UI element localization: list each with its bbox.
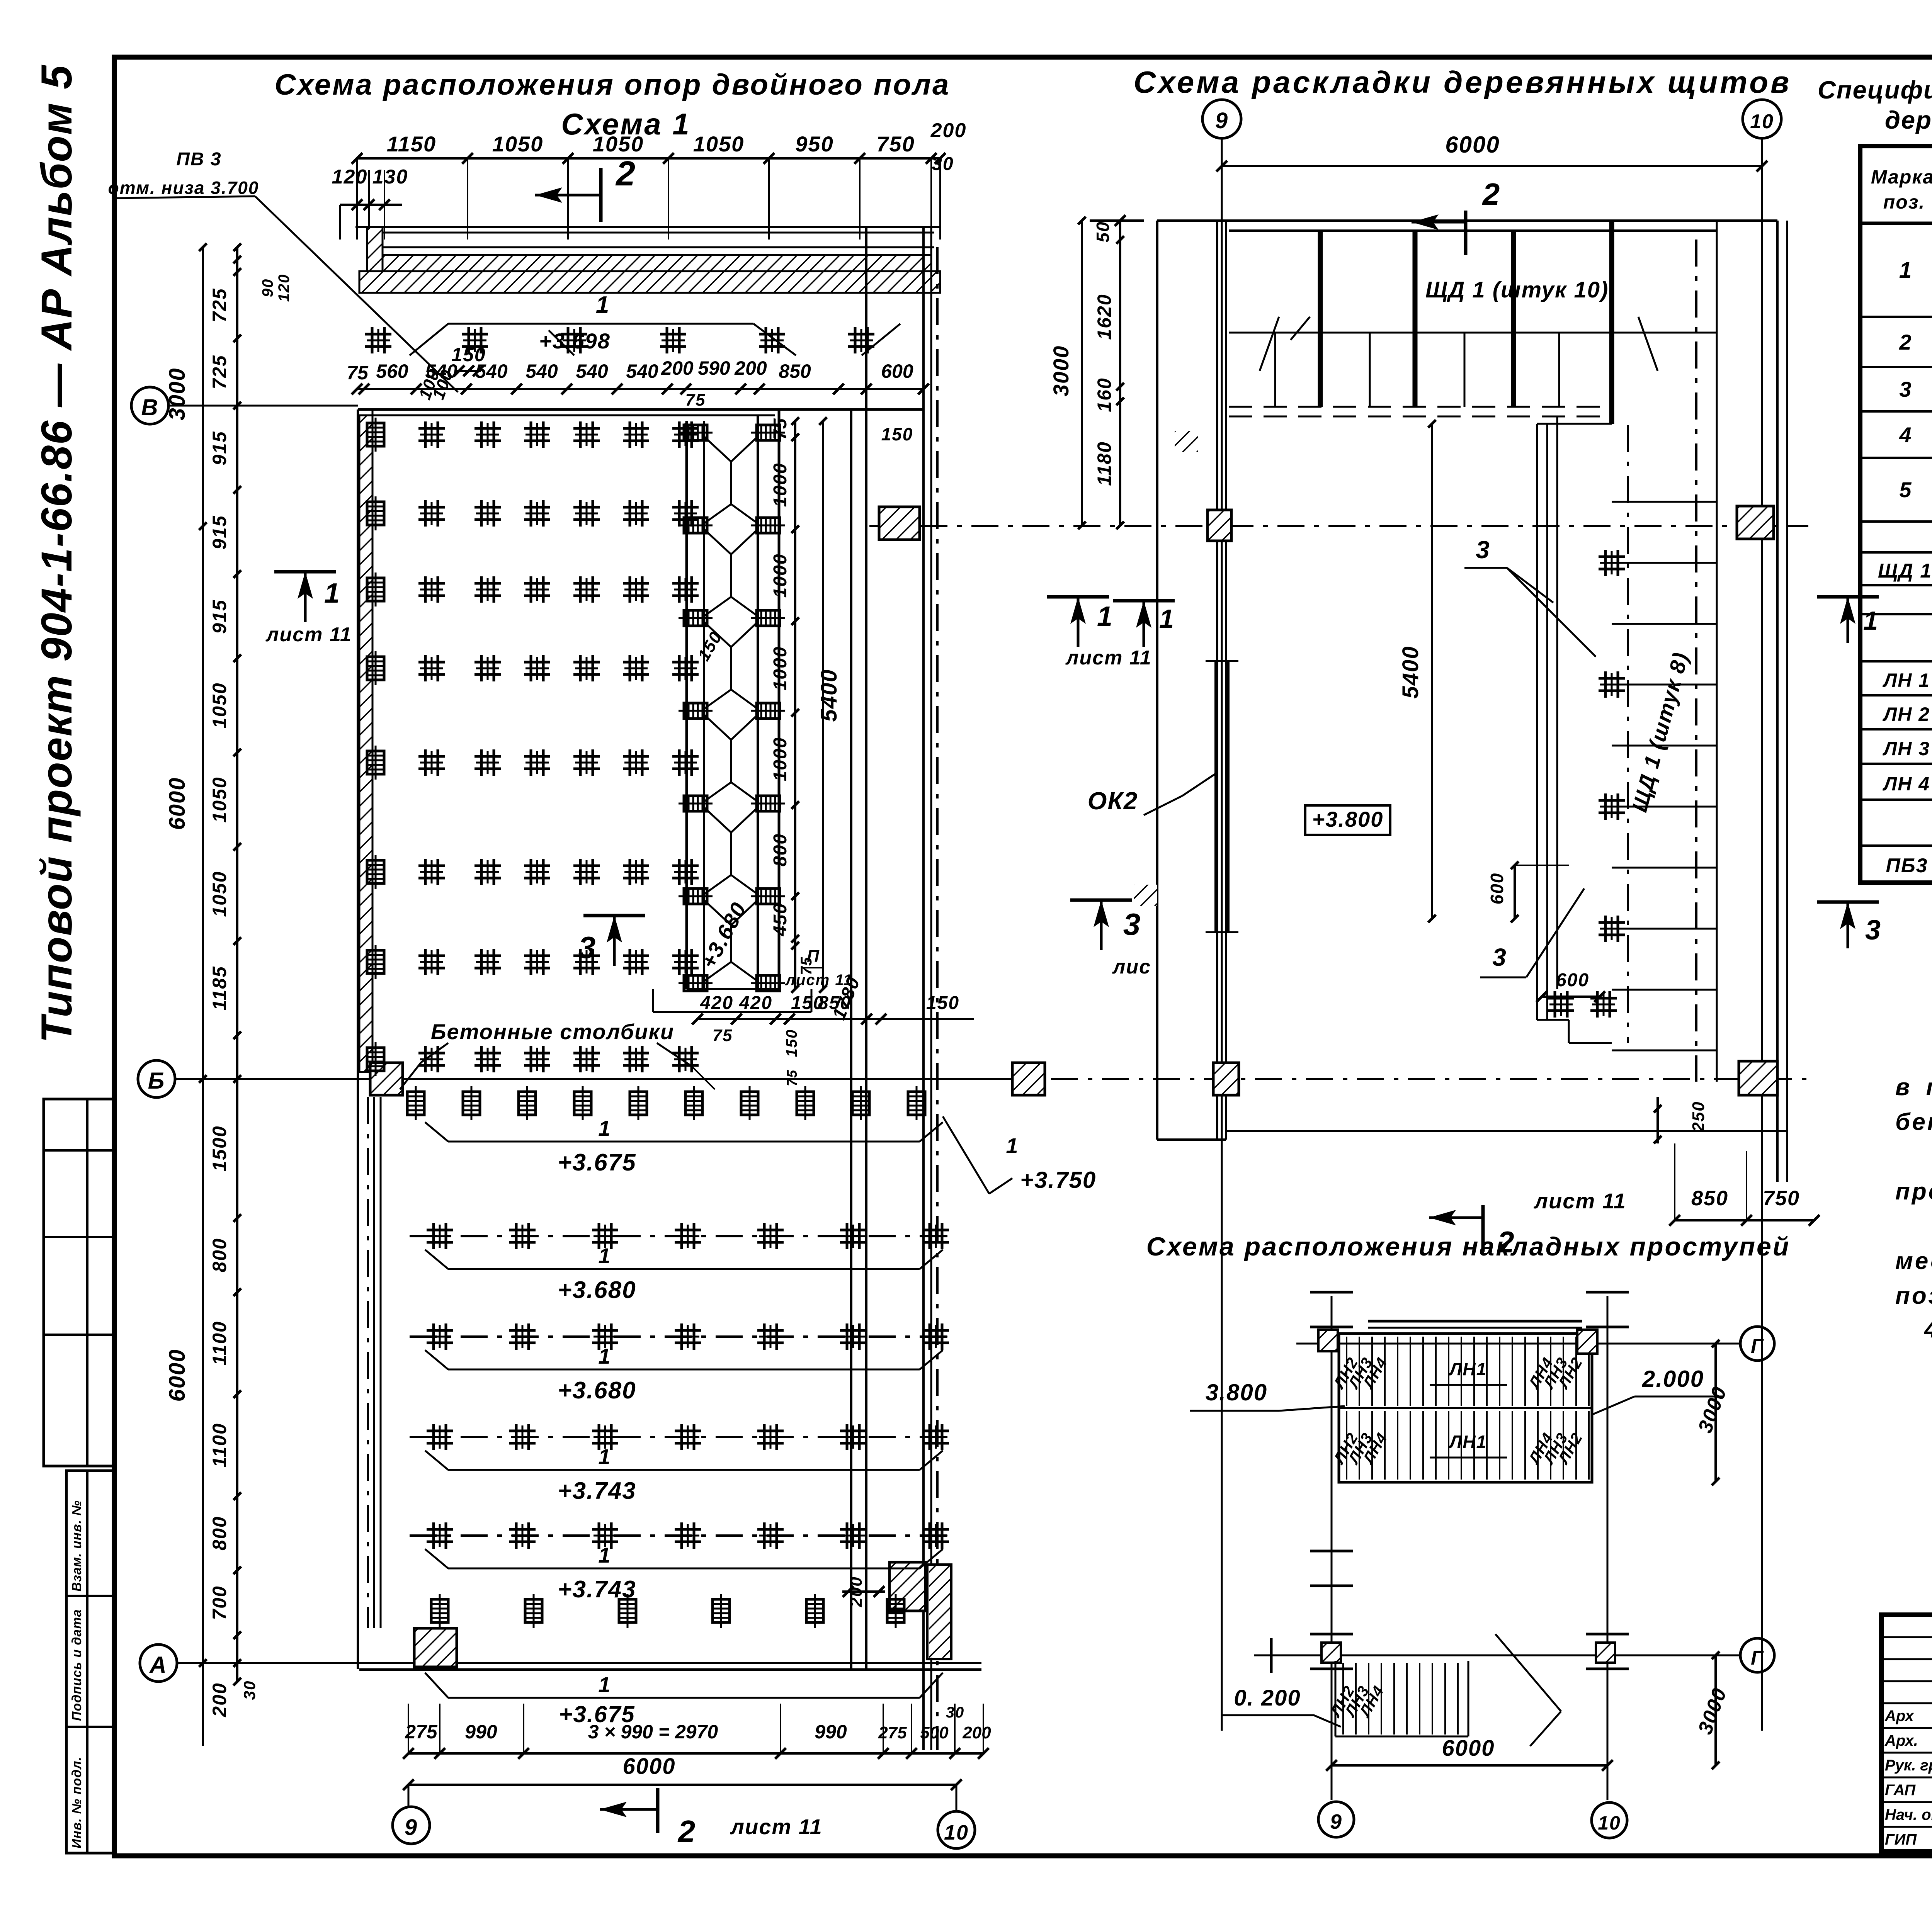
svg-text:275: 275	[405, 1721, 438, 1743]
В level hatched block (left plan)	[879, 507, 920, 540]
svg-text:ЩД 1: ЩД 1	[1878, 560, 1932, 582]
svg-text:915: 915	[209, 515, 230, 549]
svg-text:1185: 1185	[209, 966, 230, 1011]
svg-text:1: 1	[598, 1444, 611, 1469]
svg-text:150: 150	[926, 993, 959, 1013]
axis circle Б	[138, 1060, 371, 1097]
svg-text:540: 540	[626, 360, 658, 382]
bracket +3.675 (row Б)	[425, 1116, 943, 1176]
+3.800 boxed label	[1305, 805, 1390, 835]
svg-text:200: 200	[930, 119, 967, 142]
svg-text:ЛН1: ЛН1	[1449, 1432, 1487, 1452]
svg-text:2: 2	[677, 1814, 696, 1848]
svg-text:лист 11: лист 11	[1533, 1189, 1626, 1213]
svg-text:1: 1	[598, 1344, 611, 1368]
spec table grid	[1860, 146, 1932, 883]
svg-text:915: 915	[209, 599, 230, 634]
labels 3 with leaders (middle plan)	[1464, 536, 1596, 977]
svg-text:лист 11: лист 11	[1065, 647, 1152, 669]
hatched column blocks at В level	[1207, 506, 1774, 541]
post row lower 1	[410, 1223, 949, 1249]
svg-text:6000: 6000	[1442, 1736, 1495, 1761]
svg-text:30: 30	[240, 1680, 259, 1700]
top post row +3.698 with leader bracket	[365, 292, 900, 402]
leader ПВ3 отм.низа 3.700	[108, 149, 458, 392]
svg-text:Схема раскладки деревянных: Схема раскладки деревянных щитов	[1134, 65, 1792, 99]
dim 420/420/150/850/150 row	[692, 993, 974, 1045]
label Бетонные столбики with leaders	[400, 1019, 715, 1089]
title block: signature rows	[1884, 1706, 1932, 1848]
svg-text:75: 75	[770, 418, 791, 440]
svg-text:1050: 1050	[492, 132, 544, 156]
svg-text:Спецификация к схемам располож: Спецификация к схемам расположения опор …	[1818, 76, 1932, 104]
svg-text:150: 150	[881, 424, 913, 444]
middle plan bottom dims 850/750	[1157, 1097, 1820, 1226]
dim 5400 middle plan	[1398, 420, 1436, 922]
svg-text:ЛН 3: ЛН 3	[1883, 738, 1930, 759]
svg-text:+3.680: +3.680	[558, 1377, 636, 1404]
svg-text:1: 1	[598, 1672, 611, 1697]
svg-text:725: 725	[209, 355, 230, 389]
spec table row 2	[1899, 330, 1932, 356]
axis Г upper	[1296, 1327, 1774, 1361]
svg-text:3.800: 3.800	[1206, 1379, 1267, 1405]
middle plan section mark 2 top	[1412, 177, 1500, 255]
svg-text:600: 600	[1487, 873, 1507, 905]
notes paragraph	[1895, 1039, 1932, 1343]
svg-text:1: 1	[596, 292, 610, 318]
svg-text:950: 950	[795, 132, 833, 156]
svg-text:3 × 990 = 2970: 3 × 990 = 2970	[588, 1721, 718, 1743]
svg-text:700: 700	[209, 1585, 230, 1620]
svg-text:3: 3	[1476, 536, 1490, 564]
svg-text:лист 11: лист 11	[730, 1814, 823, 1839]
stair circles 9 10 bottom	[1318, 1802, 1627, 1838]
svg-text:200: 200	[734, 357, 767, 379]
window ОК2 in left wall	[1088, 661, 1238, 932]
bottom dim 6000	[403, 1754, 962, 1790]
middle plan axis circle 9 top	[1202, 100, 1241, 1731]
svg-text:800: 800	[209, 1238, 230, 1272]
svg-text:540: 540	[425, 360, 457, 382]
svg-text:750: 750	[1763, 1187, 1800, 1210]
svg-text:Бетонные столбики: Бетонные столбики	[431, 1019, 674, 1044]
left inner dim chain 725/915/1050/1185/1500/800/1100/1100/800/700/200	[209, 243, 293, 1718]
stair dim 6000	[1326, 1736, 1613, 1771]
svg-text:5: 5	[1899, 477, 1912, 502]
svg-text:1: 1	[1899, 258, 1912, 283]
svg-text:5400: 5400	[1398, 646, 1423, 698]
bracket +3.743	[425, 1543, 943, 1603]
canal dim chain 75/1000x4/800/450/75 and 5400	[770, 417, 864, 1086]
svg-text:ГИП: ГИП	[1885, 1831, 1917, 1848]
svg-text:540: 540	[576, 360, 608, 382]
svg-text:Инв. № подл.: Инв. № подл.	[70, 1757, 84, 1848]
middle plan dim 6000 top	[1216, 132, 1767, 172]
svg-text:420: 420	[739, 993, 772, 1013]
svg-text:250: 250	[1689, 1101, 1708, 1132]
svg-text:275: 275	[878, 1723, 907, 1742]
axis Б hatched block right	[1012, 1063, 1045, 1095]
svg-text:Схема расположения опор двойно: Схема расположения опор двойного пола	[275, 68, 951, 101]
ladder post row below Б	[407, 1086, 925, 1120]
svg-text:ЛН 4: ЛН 4	[1883, 773, 1930, 795]
svg-text:2.000: 2.000	[1642, 1366, 1704, 1392]
svg-text:6000: 6000	[165, 1349, 190, 1402]
middle plan title	[1134, 65, 1792, 99]
middle plan outer boundary	[1157, 221, 1787, 1182]
post grid upper section	[367, 418, 699, 1076]
svg-text:1: 1	[1863, 606, 1879, 635]
svg-text:120: 120	[332, 166, 368, 188]
svg-text:600: 600	[1556, 970, 1589, 990]
svg-text:1: 1	[598, 1244, 611, 1268]
svg-text:9: 9	[1330, 1810, 1342, 1833]
svg-text:В: В	[141, 394, 158, 420]
left plan top dimension chain 1150/1050/1050/1050/950/750/200	[352, 119, 966, 240]
section mark 1 right of plan	[1047, 597, 1152, 669]
svg-text:6000: 6000	[622, 1754, 675, 1779]
svg-text:1150: 1150	[387, 132, 436, 156]
svg-text:1050: 1050	[593, 132, 644, 156]
spec row ЛН2 + designation	[1883, 703, 1932, 743]
svg-text:1050: 1050	[209, 871, 230, 917]
svg-text:3: 3	[578, 930, 597, 965]
svg-text:850: 850	[1691, 1187, 1728, 1210]
middle plan axis circle 10 top	[1743, 100, 1781, 1731]
plan right wall	[851, 227, 937, 1750]
svg-text:Нач. отд.: Нач. отд.	[1885, 1806, 1932, 1823]
axis circle А	[140, 1644, 359, 1682]
svg-text:10: 10	[1750, 110, 1774, 133]
svg-text:725: 725	[209, 288, 230, 322]
svg-text:Подпись и дата: Подпись и дата	[70, 1609, 84, 1721]
bottom ladder row	[431, 1576, 904, 1628]
spec row ЛН3	[1883, 737, 1932, 760]
dim chain 75/560/540x5/200/590/200/850/600	[347, 357, 929, 444]
svg-text:лист 11: лист 11	[785, 972, 853, 989]
svg-text:75: 75	[347, 362, 369, 384]
section marks right of middle plan	[1817, 597, 1881, 948]
middle plan bottom section mark 2	[1429, 1189, 1626, 1259]
svg-text:3: 3	[1123, 907, 1141, 941]
svg-text:160: 160	[1094, 377, 1115, 412]
svg-text:75: 75	[685, 391, 706, 409]
svg-text:бетона марки 150.: бетона марки 150.	[1895, 1109, 1932, 1135]
canal zigzag and ladder posts	[679, 425, 785, 991]
bracket +3.680	[425, 1244, 943, 1303]
svg-text:800: 800	[770, 833, 791, 866]
axis А hatched block right	[889, 1562, 925, 1611]
wooden panels grid top	[1229, 221, 1717, 1082]
title block main table	[1881, 1615, 1932, 1852]
axis А hatched block left	[414, 1628, 457, 1667]
svg-text:1100: 1100	[209, 1423, 230, 1468]
svg-text:75: 75	[713, 1026, 733, 1045]
svg-text:Марка,: Марка,	[1871, 166, 1932, 188]
left margin signature table	[66, 1471, 114, 1853]
svg-text:540: 540	[526, 360, 558, 382]
spec row ЛН1	[1883, 669, 1932, 691]
svg-text:5400: 5400	[816, 669, 842, 722]
svg-text:отм. низа 3.700: отм. низа 3.700	[108, 178, 259, 198]
bottom-right tall rect	[927, 1565, 951, 1659]
svg-text:+3.750: +3.750	[1020, 1167, 1096, 1193]
dim 600 horizontal (middle plan)	[1536, 970, 1605, 1002]
svg-text:лис: лис	[1112, 956, 1151, 978]
stair right dim chain 3000/3000	[1694, 1340, 1731, 1769]
axis dash-dot through middle plan (Б level)	[1051, 1078, 1808, 1080]
svg-text:1050: 1050	[209, 776, 230, 822]
svg-text:750: 750	[876, 132, 915, 156]
canal walls	[653, 409, 811, 1012]
svg-text:лист 11: лист 11	[265, 623, 352, 646]
svg-text:1: 1	[1097, 601, 1113, 632]
svg-text:+3.743: +3.743	[558, 1478, 636, 1504]
left plan title	[275, 68, 951, 141]
plan left wall (hatched)	[358, 409, 381, 1669]
svg-text:10: 10	[944, 1821, 969, 1844]
svg-text:+3.698: +3.698	[539, 329, 611, 353]
svg-text:1000: 1000	[770, 737, 791, 781]
svg-text:120: 120	[276, 274, 293, 302]
leader 3.800	[1190, 1379, 1345, 1411]
left plan small dims 120 130	[332, 166, 408, 240]
svg-text:ЛН 2: ЛН 2	[1883, 703, 1930, 725]
svg-text:200: 200	[661, 357, 694, 379]
svg-text:1620: 1620	[1094, 294, 1115, 340]
left outer dim chain 3000/6000/6000	[165, 243, 207, 1746]
leader 0.200	[1221, 1685, 1341, 1727]
svg-text:1: 1	[1159, 604, 1175, 634]
svg-text:3: 3	[1492, 943, 1507, 971]
svg-text:ОК2: ОК2	[1088, 787, 1138, 815]
svg-text:1: 1	[598, 1116, 611, 1140]
svg-text:Взам. инв. №: Взам. инв. №	[70, 1500, 84, 1592]
svg-text:Рук. гр.: Рук. гр.	[1885, 1757, 1932, 1774]
dim 600 vertical (middle plan)	[1487, 861, 1569, 922]
svg-text:1: 1	[598, 1543, 611, 1567]
axis circle В	[131, 387, 358, 424]
svg-text:850: 850	[818, 993, 851, 1013]
axis circle 9 (left plan)	[393, 1785, 430, 1844]
section mark 2 (top)	[535, 155, 636, 222]
svg-text:1100: 1100	[209, 1321, 230, 1366]
svg-text:1000: 1000	[770, 463, 791, 507]
svg-text:поз.: поз.	[1883, 191, 1925, 213]
svg-text:1000: 1000	[770, 646, 791, 691]
svg-text:30: 30	[932, 154, 954, 174]
svg-text:1050: 1050	[209, 682, 230, 728]
spec table heading	[1818, 76, 1932, 134]
svg-text:2: 2	[615, 155, 636, 193]
svg-text:1: 1	[1006, 1133, 1019, 1158]
svg-text:Арх: Арх	[1884, 1707, 1914, 1724]
spec row ЛН4	[1883, 773, 1932, 795]
svg-text:600: 600	[881, 360, 913, 382]
svg-text:9: 9	[1215, 108, 1228, 133]
svg-text:10: 10	[1598, 1812, 1621, 1834]
post row lower 2	[410, 1323, 949, 1350]
bracket +3.743	[425, 1444, 943, 1504]
svg-text:ПВ 3: ПВ 3	[176, 149, 221, 170]
svg-text:ЛН1: ЛН1	[1449, 1359, 1487, 1379]
svg-text:200: 200	[209, 1682, 230, 1717]
svg-text:500: 500	[920, 1723, 949, 1742]
bracket +3.680	[425, 1344, 943, 1404]
svg-text:+3.680: +3.680	[558, 1277, 636, 1303]
svg-text:0. 200: 0. 200	[1234, 1685, 1301, 1711]
svg-text:4: 4	[1899, 423, 1912, 447]
svg-text:в плане 200 × 150) и стенк: в плане 200 × 150) и стенки канала выпол…	[1895, 1074, 1932, 1101]
svg-text:75: 75	[784, 1069, 800, 1086]
section mark 3 right of plan	[1070, 900, 1151, 978]
stair axis verticals 9 and 10	[1310, 1292, 1629, 1800]
svg-text:800: 800	[209, 1516, 230, 1550]
svg-text:4. Окно ОК2 учтено в специф: 4. Окно ОК2 учтено в спецификации на лис…	[1923, 1316, 1932, 1343]
upper stair flight	[1330, 1321, 1592, 1482]
svg-text:2: 2	[1482, 177, 1501, 211]
hatched column blocks at Б level	[1213, 1061, 1777, 1095]
post row lower 4	[410, 1522, 949, 1549]
svg-text:560: 560	[376, 360, 408, 382]
svg-text:1180: 1180	[1094, 441, 1115, 486]
svg-text:1050: 1050	[693, 132, 745, 156]
svg-text:+3.675: +3.675	[558, 1149, 636, 1176]
spec row ПБ3	[1886, 853, 1932, 877]
section mark 2 bottom	[600, 1788, 823, 1848]
svg-text:3: 3	[1865, 915, 1881, 946]
left margin stamp text	[32, 65, 81, 1043]
svg-text:990: 990	[465, 1721, 497, 1743]
post row lower 3	[410, 1424, 949, 1450]
lower stair flight	[1327, 1634, 1561, 1746]
bottom dim chain 275/990/2970/990/275/500/200	[403, 1704, 991, 1759]
svg-text:А: А	[149, 1652, 167, 1678]
svg-text:850: 850	[779, 360, 811, 382]
crosshatch marks	[1134, 431, 1198, 906]
svg-text:Арх.: Арх.	[1884, 1732, 1918, 1749]
svg-text:420: 420	[700, 993, 733, 1013]
svg-text:2: 2	[1899, 330, 1912, 354]
svg-text:9: 9	[405, 1815, 418, 1840]
svg-text:50: 50	[1093, 221, 1113, 242]
svg-text:+3.800: +3.800	[1312, 807, 1384, 831]
stair diagram title	[1146, 1232, 1791, 1261]
svg-text:3000: 3000	[1049, 345, 1073, 397]
spec table row 1	[1899, 235, 1932, 301]
spec table row 3	[1899, 377, 1932, 403]
middle plan left dim chain 50/1620/160/1180/3000	[1049, 215, 1144, 529]
svg-text:Типовой проект 904-1-66.86 —: Типовой проект 904-1-66.86 — АР Альбом 5	[32, 65, 81, 1043]
section mark 1 left of plan	[265, 572, 352, 646]
svg-text:1000: 1000	[770, 554, 791, 598]
svg-text:местах примыкания к каналу: местах примыкания к каналу обрамить угол…	[1895, 1248, 1932, 1274]
spec table row 5	[1899, 462, 1932, 522]
svg-text:3000: 3000	[165, 367, 190, 420]
axis dash-dot through middle plan (В level)	[869, 525, 1808, 527]
section mark 3 (inside plan)	[578, 916, 645, 966]
svg-text:90: 90	[259, 279, 276, 297]
svg-text:Схема расположения накладных п: Схема расположения накладных проступей	[1146, 1232, 1791, 1261]
svg-text:предусмотреть установку закл: предусмотреть установку закладных элемен…	[1895, 1178, 1932, 1205]
svg-text:540: 540	[475, 360, 508, 382]
svg-text:150: 150	[783, 1029, 800, 1057]
svg-text:поз. 5 (см. узлы II ; III: поз. 5 (см. узлы II ; III ; VII на листе…	[1895, 1283, 1932, 1309]
left margin upper blank table	[44, 1099, 114, 1466]
svg-text:590: 590	[698, 357, 730, 379]
svg-text:1: 1	[324, 578, 340, 609]
spec table header texts	[1871, 160, 1932, 213]
svg-text:ПБ3: ПБ3	[1886, 855, 1928, 877]
svg-text:200: 200	[962, 1723, 991, 1742]
svg-text:деревянных щитов и накладных: деревянных щитов и накладных проступей.	[1885, 106, 1932, 134]
svg-text:450: 450	[770, 903, 791, 936]
svg-text:П: П	[807, 947, 820, 966]
svg-text:ЩД 1 (штук 10): ЩД 1 (штук 10)	[1425, 277, 1609, 302]
svg-text:6000: 6000	[165, 777, 190, 830]
spec table row 4	[1899, 423, 1932, 449]
svg-text:1500: 1500	[209, 1125, 230, 1171]
bottom bracket +3.675	[425, 1672, 943, 1727]
svg-text:3: 3	[1899, 377, 1912, 401]
spec row ЩД1	[1878, 559, 1932, 582]
axis Б hatched block left	[370, 1063, 403, 1095]
plan top edge on axis В	[358, 409, 923, 415]
canal strip in middle plan	[1537, 416, 1717, 1050]
+3.750 label right	[943, 1116, 1096, 1194]
svg-text:ЛН 1: ЛН 1	[1883, 669, 1930, 691]
axis Б line across plan	[371, 1078, 1012, 1080]
svg-text:Г: Г	[1751, 1335, 1764, 1357]
svg-text:990: 990	[815, 1721, 847, 1743]
section marks 1 and 3 left of middle plan	[1113, 601, 1175, 647]
plan bottom edge on axis А	[359, 1663, 981, 1670]
top wall band with hatching	[355, 227, 940, 293]
svg-text:130: 130	[372, 166, 408, 188]
svg-text:Б: Б	[148, 1068, 165, 1094]
svg-text:915: 915	[209, 431, 230, 465]
svg-text:6000: 6000	[1445, 132, 1500, 158]
axis Г lower	[1254, 1638, 1774, 1673]
leader 2.000	[1592, 1366, 1723, 1415]
axis circle 10 (left plan)	[938, 1785, 975, 1848]
svg-text:Г: Г	[1751, 1647, 1764, 1669]
svg-text:ГАП: ГАП	[1885, 1782, 1916, 1799]
